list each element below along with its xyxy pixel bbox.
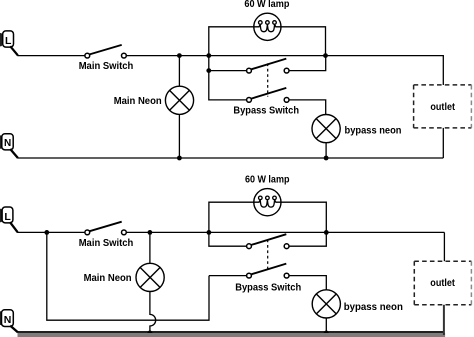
wire lamp branch right: [281, 27, 326, 56]
node lamp branch left: [206, 53, 211, 58]
node lamp branch right (bottom): [324, 230, 329, 235]
wire outlet return (bottom): [443, 305, 445, 335]
wire neon branch lower: [178, 114, 180, 158]
node bypass row1 left: [206, 68, 211, 73]
svg-text:Main Neon: Main Neon: [84, 273, 132, 284]
wire bypass row2 left: [209, 71, 247, 100]
neutral bus shadow bar: [18, 333, 446, 337]
bypass switch pole 1 (bottom): [247, 234, 289, 248]
svg-text:60 W lamp: 60 W lamp: [244, 0, 289, 10]
lead from L: [10, 46, 18, 55]
main switch SW1: [85, 45, 126, 58]
wire L to main switch (bottom): [17, 231, 85, 233]
svg-text:N: N: [4, 314, 12, 326]
wire main switch to outlet branch (bottom): [126, 231, 444, 233]
wire L to main switch: [17, 55, 85, 57]
svg-text:Main Neon: Main Neon: [114, 96, 162, 107]
terminal L (bottom circuit): [0, 207, 13, 223]
wire neutral (top circuit): [17, 157, 443, 159]
terminal L (top circuit): [0, 31, 14, 47]
neon lamp Main Neon: [165, 86, 193, 114]
wire neutral bus (bottom circuit): [18, 331, 444, 333]
lamp 60 W (bottom): [254, 189, 281, 216]
neon lamp bypass neon (top circuit): [312, 115, 340, 143]
lamp 60 W (top): [254, 13, 281, 40]
wire outlet return (top): [442, 128, 444, 158]
wire lamp branch right (bottom): [281, 202, 326, 232]
svg-text:60 W lamp: 60 W lamp: [245, 174, 290, 185]
svg-text:outlet: outlet: [430, 102, 455, 113]
node main neon tap (bottom): [148, 230, 153, 235]
node main neon return: [177, 156, 182, 161]
wire neon branch upper (bottom): [149, 232, 151, 263]
wire outlet feed (bottom): [443, 232, 445, 261]
wire bypass row1 right: [289, 56, 326, 71]
node pre-switch tap: [44, 230, 49, 235]
svg-text:bypass neon: bypass neon: [344, 302, 403, 313]
lead from L (bottom): [10, 222, 18, 232]
wire main switch to outlet branch: [126, 55, 444, 57]
terminal N (top circuit): [0, 134, 13, 150]
svg-text:bypass neon: bypass neon: [345, 125, 402, 136]
bypass switch pole 1: [247, 59, 289, 73]
svg-text:L: L: [4, 211, 11, 223]
wire bypass row2 left (bottom): [209, 275, 247, 277]
bypass switch pole 2: [247, 88, 289, 102]
wire bypass row1 left: [209, 56, 247, 71]
main switch SW1 (bottom): [85, 222, 126, 235]
svg-text:outlet: outlet: [430, 278, 455, 289]
node main neon tap: [177, 53, 182, 58]
wire bypass row1 right (bottom): [289, 232, 326, 246]
wire bypass row2 right to neon (bottom): [289, 276, 326, 291]
mechanical link (dashed) bottom bypass switch: [267, 240, 269, 270]
outlet box (bottom circuit, dashed): [414, 261, 471, 305]
node lamp branch right: [323, 53, 328, 58]
node bypass neon return: [324, 156, 329, 161]
svg-text:N: N: [4, 138, 11, 149]
svg-text:Bypass Switch: Bypass Switch: [233, 106, 299, 117]
node main neon return (bottom): [147, 331, 152, 336]
neon lamp Main Neon (bottom): [136, 263, 164, 291]
outlet box (top circuit, dashed): [414, 85, 472, 128]
lead from N (bottom): [10, 326, 18, 333]
svg-text:L: L: [5, 35, 12, 47]
wire bypass row1 left (bottom): [209, 232, 247, 246]
wire lamp branch left: [209, 27, 254, 56]
svg-text:Bypass Switch: Bypass Switch: [235, 282, 301, 293]
node lamp branch left (bottom): [207, 230, 212, 235]
bypass switch pole 2 (bottom): [247, 264, 289, 278]
terminal N (bottom circuit): [0, 310, 13, 327]
wire bypass row2 right to neon: [289, 100, 326, 115]
wire bypass neon to neutral bus (bottom): [325, 318, 327, 333]
wire bypass neon to neutral: [325, 143, 327, 159]
wire outlet feed (top): [442, 56, 444, 85]
mechanical link (dashed) top bypass switch: [267, 63, 269, 96]
svg-text:Main Switch: Main Switch: [79, 238, 134, 249]
lead from N (top): [10, 149, 18, 158]
neon lamp bypass neon (bottom circuit): [312, 290, 340, 318]
node bypass neon return (bottom): [324, 331, 329, 336]
wire neon branch upper: [178, 56, 180, 87]
svg-text:Main Switch: Main Switch: [79, 61, 134, 72]
wire loop left vertical: [47, 232, 209, 320]
wire neon branch lower with hop (bottom): [150, 291, 156, 333]
wire lamp branch left (bottom): [209, 202, 254, 232]
